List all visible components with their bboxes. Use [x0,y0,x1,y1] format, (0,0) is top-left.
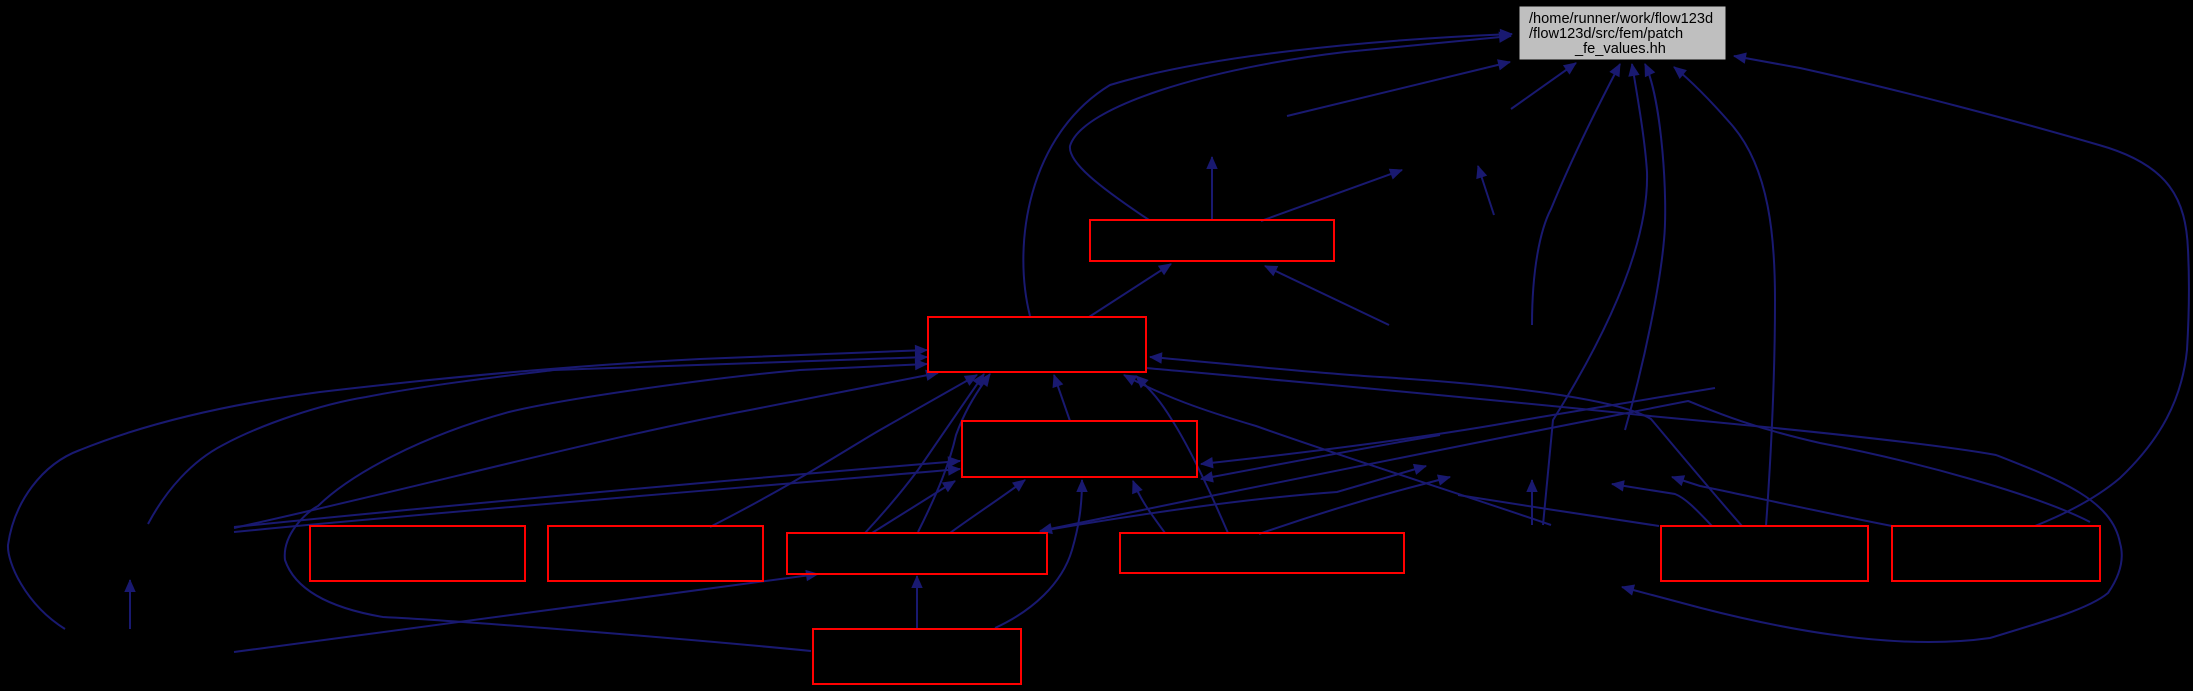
wire edge node-W to B-left [234,461,960,527]
wire edge B-top to A-bottom [1054,375,1070,421]
wire edge T-top to node-R [1261,170,1402,221]
wire edge C-top to B-left [234,469,960,532]
wire edge node-N to GREY [1625,64,1665,430]
wire edge node-O to GREY [1543,64,1647,525]
svg-text:_fe_values.hh: _fe_values.hh [1574,41,1666,57]
wire edge node-O to A-bottom-right [1124,375,1551,525]
node H red box [1892,526,2100,581]
wire edge I-top to E-bottom (vertical) [916,576,918,628]
wire edge node-N to B-right [1201,435,1440,479]
node E red box [787,533,1047,574]
wire edge node-O to node-N (vertical) [1531,480,1533,525]
wire edge E-right to node-N [1047,466,1426,530]
wire G-top-left corner stub line [1458,495,1659,526]
svg-text:/home/runner/work/flow123d: /home/runner/work/flow123d [1529,11,1713,27]
wire edge node-V to E-bottom (long straight line) [234,574,818,652]
node I red box [813,629,1021,684]
wire edge H-top to GREY (right edge, giant arc) [1734,56,2189,526]
wire edge E-top to B-bottom [950,480,1025,533]
wire edge F-top to A-bottom-right [1136,376,1228,533]
wire edge node-R to GREY [1511,63,1576,109]
node C red box [310,526,525,581]
wire edge far-right to E-top-right [1040,401,2090,531]
wire edge D-top to A-bottom [710,375,977,527]
wire edge A-top to GREY (left edge arrow) [1023,34,1512,316]
node D red box [548,526,763,581]
wire edge A-top to T-bottom [1089,264,1171,317]
wire edge I-top to B-bottom (arc) [995,480,1082,628]
wire edge node-N to T-bottom [1265,266,1389,325]
wire edge node-M to GREY [1532,64,1620,325]
wire edge node-W to A-left [148,357,927,524]
wire edge F-top to B-bottom [1133,481,1165,533]
wire edge G-top to GREY [1674,67,1775,526]
wire edge node-P to node-R [1478,166,1494,215]
wire edge T-top to node-S (vertical) [1211,157,1213,220]
wire edge E-top to A-bottom (curved) [918,374,990,532]
node GREY /home/runner/work/flow123d/flow123d/src/fem/patch_fe_values.hh [1519,6,1726,60]
node T red box (patch_fe_test.cpp) [1090,220,1334,261]
svg-text:/flow123d/src/fem/patch: /flow123d/src/fem/patch [1529,26,1683,42]
wire edge node-S to GREY (bottom-left corner) [1287,62,1510,116]
wire edge F-top to node-N [1259,477,1450,534]
wire edge G-top to A-right (elbow line) [1150,357,1742,526]
wire edge node-V to node-W (vertical) [129,580,131,629]
node B red box [962,421,1197,477]
wire edge E-top to B-bottom-left corner [872,481,955,533]
node F red box [1120,533,1404,573]
wire edge node-W2 to A-bottom-left [234,373,938,528]
wire edge A-right to node-O (wrap-around box H) [1146,368,2122,642]
wire edge E-top to A-bottom (steep) [865,374,984,533]
node G red box [1661,526,1868,581]
wire edge G-top to node-N [1612,484,1712,526]
wire edge node-V to A-left (outer big arc) [8,350,927,629]
wire edge I-left to A-left (big hook around C) [285,364,927,651]
wire edge far-right to B-right [1201,388,1715,464]
wire edge T-top to GREY (merges into left arrow) [1070,36,1511,220]
wire edge H-top to node-N [1672,477,1892,526]
node A red box [928,317,1146,372]
